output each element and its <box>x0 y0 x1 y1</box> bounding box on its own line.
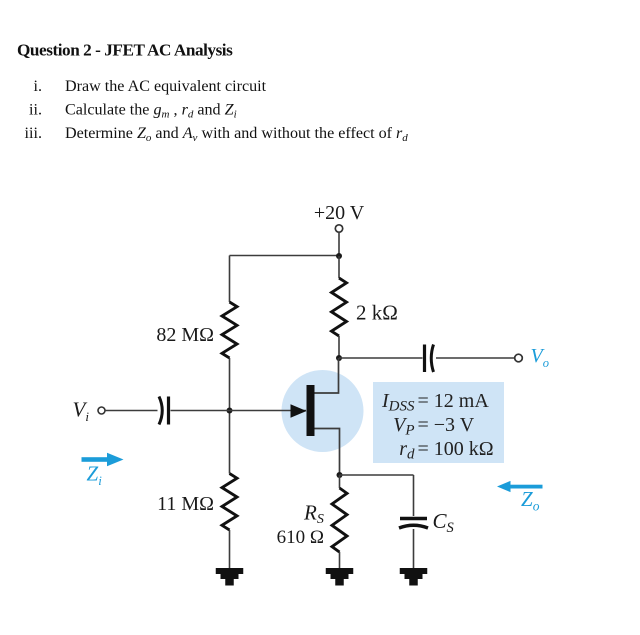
wire down to CS <box>413 475 415 516</box>
ground G2 <box>326 568 354 586</box>
svg-text:iii.: iii. <box>25 125 42 142</box>
wire RD to drain node <box>338 336 340 358</box>
svg-text:610 Ω: 610 Ω <box>277 527 324 548</box>
svg-text:Zo: Zo <box>521 487 540 514</box>
wire top node to RD <box>338 256 340 278</box>
svg-text:Question 2 - JFET AC Analysis: Question 2 - JFET AC Analysis <box>17 41 233 60</box>
output terminal <box>515 354 523 362</box>
svg-text:= −3 V: = −3 V <box>418 414 475 436</box>
svg-text:Zi: Zi <box>87 462 103 489</box>
wire source node to RS <box>339 475 341 488</box>
node gate junction <box>227 408 233 414</box>
svg-text:11 MΩ: 11 MΩ <box>157 493 214 515</box>
svg-text:+20 V: +20 V <box>314 202 365 224</box>
wire input terminal to C1 <box>105 410 158 412</box>
resistor RS 610 Ω <box>332 488 347 552</box>
wire drain node to C2 <box>339 357 423 359</box>
capacitor C1 input coupling <box>159 397 169 425</box>
transistor Q1 channel bar <box>307 385 315 436</box>
wire supply to top node <box>338 232 340 257</box>
transistor Q1 source stub <box>315 429 340 476</box>
transistor Q1 body highlight circle <box>282 370 364 452</box>
ground G3 <box>400 568 428 586</box>
resistor R2 11 MΩ <box>222 474 237 531</box>
svg-text:RS: RS <box>303 501 324 528</box>
arrow Zi <box>82 453 124 466</box>
wire CS to ground <box>413 529 415 568</box>
node top junction <box>336 253 342 259</box>
transistor Q1 gate arrowhead <box>291 404 307 418</box>
resistor RD 2 kΩ <box>332 278 347 336</box>
parameter box <box>373 382 504 463</box>
svg-text:Draw the AC equivalent circuit: Draw the AC equivalent circuit <box>65 78 267 95</box>
input terminal <box>98 407 105 414</box>
svg-text:= 100 kΩ: = 100 kΩ <box>418 438 494 460</box>
wire top horizontal <box>230 255 340 257</box>
svg-text:2 kΩ: 2 kΩ <box>356 301 398 325</box>
capacitor CS <box>399 519 428 529</box>
transistor Q1 drain stub <box>315 358 339 393</box>
wire R2 to ground <box>229 530 231 568</box>
svg-text:CS: CS <box>433 509 455 536</box>
svg-text:Vi: Vi <box>73 398 90 425</box>
node drain junction <box>336 355 342 361</box>
supply terminal <box>335 225 342 232</box>
node source junction <box>337 472 343 478</box>
capacitor C2 output coupling <box>425 345 434 373</box>
svg-text:Determine Zo and Av with and w: Determine Zo and Av with and without the… <box>65 125 408 144</box>
svg-text:ii.: ii. <box>29 102 42 119</box>
svg-text:Calculate the gm , rd and Zi: Calculate the gm , rd and Zi <box>65 102 237 121</box>
svg-text:Vo: Vo <box>531 345 549 370</box>
svg-text:= 12 mA: = 12 mA <box>418 390 490 412</box>
wire R1 to gate node to R2 <box>229 358 231 474</box>
arrow Zo <box>497 481 543 492</box>
wire C2 to output terminal <box>436 357 515 359</box>
svg-text:82 MΩ: 82 MΩ <box>156 324 214 346</box>
resistor R1 82 MΩ <box>222 302 237 358</box>
ground G1 <box>216 568 244 586</box>
wire source node to CS <box>340 474 414 476</box>
wire left column top <box>229 256 231 303</box>
wire RS to ground <box>339 552 341 568</box>
svg-text:i.: i. <box>34 78 43 95</box>
wire C1 to gate <box>171 410 307 412</box>
